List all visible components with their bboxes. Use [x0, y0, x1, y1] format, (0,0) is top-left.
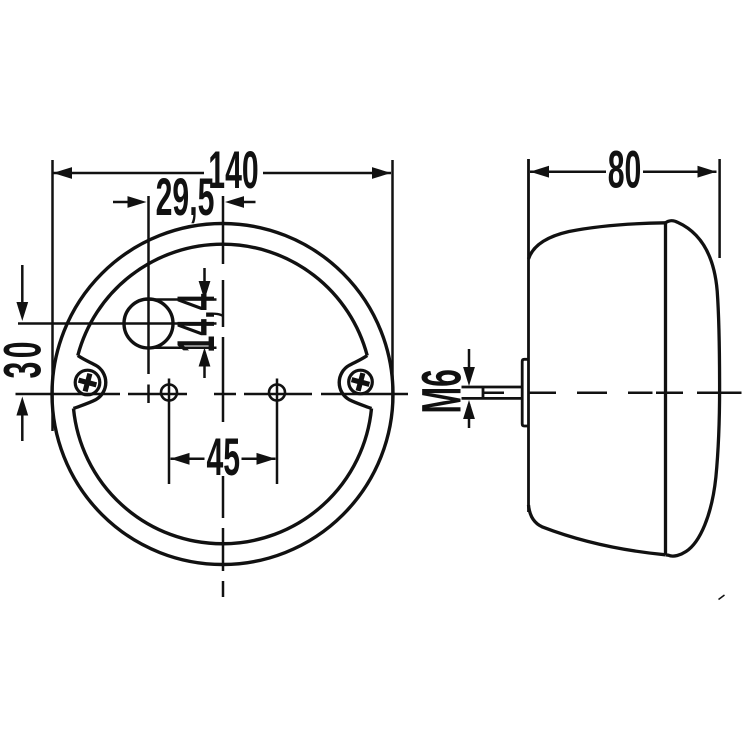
right screw head circle [349, 370, 373, 394]
stud center dash [484, 391, 504, 394]
80 right extension line [718, 159, 721, 258]
dimension 140 [53, 172, 391, 175]
right small mounting hole [269, 385, 285, 401]
left mounting ear outline [74, 356, 106, 409]
svg-text:M6: M6 [410, 369, 473, 413]
dimension 80 [530, 170, 717, 173]
cable hole circle [124, 299, 173, 348]
vertical center line (front view) [222, 196, 225, 264]
lens outline [666, 221, 720, 556]
back edge / 80 left extension line [527, 159, 530, 512]
dimension 14,4 (rotated) [146, 268, 217, 378]
inner circle top arc [78, 244, 367, 355]
right screw phillips cross [349, 371, 372, 394]
dimension M6 (rotated) [468, 349, 471, 428]
svg-text:45: 45 [207, 428, 241, 487]
inner circle bottom arc [74, 409, 372, 544]
M6 stud [462, 386, 523, 389]
left screw phillips cross [76, 371, 99, 394]
outer circle of lamp front view [52, 224, 393, 565]
right mounting ear outline [339, 356, 371, 409]
dimension 29,5 [113, 201, 256, 204]
svg-text:80: 80 [608, 141, 642, 200]
dimension 30 (rotated) [21, 265, 24, 441]
mounting boss bracket [522, 359, 528, 426]
hole horizontal center line [18, 322, 217, 325]
body top edge [529, 223, 666, 259]
svg-text:29,5: 29,5 [156, 168, 215, 227]
svg-text:14,4: 14,4 [167, 294, 226, 353]
svg-text:30: 30 [0, 338, 53, 378]
side view [462, 159, 720, 556]
140 right extension line [391, 160, 394, 404]
body bottom edge [529, 505, 666, 555]
left screw head circle [75, 370, 100, 395]
stray tick bottom right [719, 595, 725, 600]
hole vertical center line [147, 196, 150, 374]
side view horizontal center line dashes [529, 159, 742, 393]
main horizontal center line (front view) [16, 393, 121, 396]
left small mounting hole [161, 385, 177, 401]
140 left extension line [51, 160, 54, 431]
small hole vertical lines / 45 extension lines [168, 379, 171, 485]
lens seam line [664, 223, 667, 555]
dimension 45 [171, 458, 276, 461]
svg-text:140: 140 [208, 141, 258, 200]
